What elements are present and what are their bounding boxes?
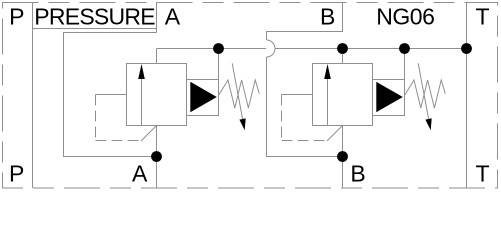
valve V2 bottom stub: [342, 126, 344, 157]
svg-text:A: A: [165, 4, 181, 30]
wire A top bypass: [64, 33, 157, 157]
valve V1 pilot sense line: [96, 94, 127, 96]
valve V1 (A-line relief valve): [96, 49, 260, 189]
svg-text:T: T: [476, 161, 490, 187]
svg-text:P: P: [9, 161, 24, 187]
wire B top bypass: [267, 3, 343, 41]
valve V2 top stub: [342, 49, 344, 64]
node T riser (T line top to bottom): [466, 3, 468, 189]
wire B drop to bottom: [267, 57, 343, 157]
node P riser (P line top to bottom): [32, 3, 34, 189]
svg-text:B: B: [350, 161, 365, 187]
wire A bottom stub: [156, 157, 158, 189]
valve V1 top stub: [156, 49, 158, 64]
junction dot valve V2 top: [337, 43, 348, 54]
valve V2 pilot sense line: [282, 94, 313, 96]
junction dot right pilot rail: [399, 43, 410, 54]
valve V2 (B-line relief valve): [282, 49, 446, 189]
valve V1 pilot triangle: [190, 82, 217, 112]
junction dot on left pilot rail: [213, 43, 224, 54]
plate outline (dashed border): [3, 3, 498, 189]
junction dot A bottom: [151, 151, 162, 162]
valve V1 adjustment arrow: [232, 63, 242, 119]
valve V1 flow arrow: [141, 78, 143, 126]
PRESSURE label box: [33, 3, 157, 33]
svg-text:P: P: [9, 4, 24, 30]
svg-text:PRESSURE: PRESSURE: [34, 4, 155, 30]
wire crossover hop: [267, 40, 276, 57]
valve V2 drain diagonal: [327, 126, 343, 142]
svg-text:NG06: NG06: [376, 4, 434, 30]
svg-text:T: T: [476, 4, 490, 30]
svg-text:B: B: [320, 4, 335, 30]
valve V2 envelope: [313, 64, 373, 126]
wire B bottom stub: [342, 157, 344, 189]
valve V1 bottom stub: [156, 126, 158, 157]
valve V2 pilot triangle: [376, 82, 403, 112]
junction dot B bottom: [337, 151, 348, 162]
valve V2 pilot stub: [404, 49, 406, 80]
svg-text:A: A: [132, 161, 148, 187]
valve V1 envelope: [127, 64, 187, 126]
valve V2 flow arrow: [327, 78, 329, 126]
wire main top rail: [157, 48, 467, 50]
valve V2 pilot head box: [373, 80, 405, 116]
valve V1 pilot stub: [218, 49, 220, 80]
valve V1 drain diagonal: [141, 126, 157, 142]
valve V1 pilot head box: [187, 80, 219, 116]
valve V2 spring: [405, 80, 446, 108]
junction dot T riser: [461, 43, 472, 54]
valve V1 spring: [219, 80, 260, 108]
valve V2 adjustment arrow: [418, 63, 428, 119]
